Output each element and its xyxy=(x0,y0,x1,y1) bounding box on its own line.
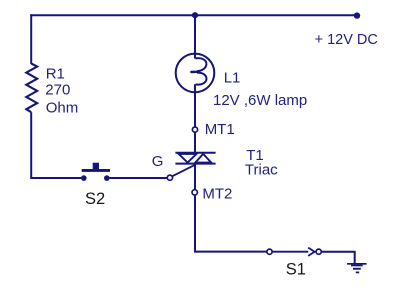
terminal circle MT1 xyxy=(192,127,197,132)
triac T1 top bar xyxy=(175,152,215,154)
wire S1 to ground stub xyxy=(321,252,355,264)
terminal circle gate G xyxy=(167,175,172,180)
svg-text:Ohm: Ohm xyxy=(46,100,79,117)
wire S2 right contact to gate circle xyxy=(109,177,167,179)
wire resistor bottom to lower-left corner xyxy=(31,112,81,178)
switch S1 left contact circle xyxy=(267,249,272,254)
svg-text:12V ,6W lamp: 12V ,6W lamp xyxy=(213,92,307,109)
svg-text:MT2: MT2 xyxy=(202,186,232,203)
wire top junction down to lamp xyxy=(194,15,196,58)
ground bar 2 xyxy=(351,265,363,267)
pushbutton S2 stem xyxy=(93,163,99,169)
pushbutton S2 actuator bar xyxy=(82,169,110,172)
ground bar 1 xyxy=(347,263,367,265)
lamp L1 circle xyxy=(176,54,215,93)
lamp L1 filament xyxy=(196,58,207,85)
wire left vertical (top rail to resistor) xyxy=(30,14,32,64)
junction dot top rail xyxy=(192,12,198,18)
svg-text:Triac: Triac xyxy=(245,162,278,179)
svg-text:G: G xyxy=(152,153,164,170)
svg-text:R1: R1 xyxy=(46,65,65,82)
svg-text:+ 12V DC: + 12V DC xyxy=(315,32,378,48)
terminal dot +12V DC xyxy=(354,12,360,18)
triac T1 left triangle xyxy=(179,154,197,163)
triac gate diagonal xyxy=(172,165,195,177)
switch S1 blade xyxy=(272,251,308,253)
wire triac to MT2 xyxy=(194,164,196,190)
terminal circle MT2 xyxy=(192,190,197,195)
switch S1 right contact circle xyxy=(316,249,321,254)
triac T1 right triangle xyxy=(195,154,211,163)
svg-text:L1: L1 xyxy=(224,69,241,86)
wire lamp bottom to MT1 xyxy=(194,84,196,127)
svg-text:S1: S1 xyxy=(286,261,306,279)
wire top horizontal +12V rail xyxy=(30,14,357,16)
pushbutton S2 right contact dot xyxy=(104,175,110,181)
ground bar 3 xyxy=(353,268,361,270)
lamp filament left stub xyxy=(191,71,196,74)
pushbutton S2 left contact dot xyxy=(81,175,87,181)
ground bar 4 xyxy=(356,272,359,274)
svg-text:S2: S2 xyxy=(85,190,105,208)
resistor R1 xyxy=(26,64,37,113)
switch S1 arrow head xyxy=(308,248,314,256)
wire MT1 to triac xyxy=(194,132,196,153)
svg-text:270: 270 xyxy=(45,82,70,99)
svg-text:MT1: MT1 xyxy=(205,121,235,138)
triac T1 bottom bar xyxy=(175,163,215,165)
wire MT2 down and to S1 xyxy=(195,195,267,252)
